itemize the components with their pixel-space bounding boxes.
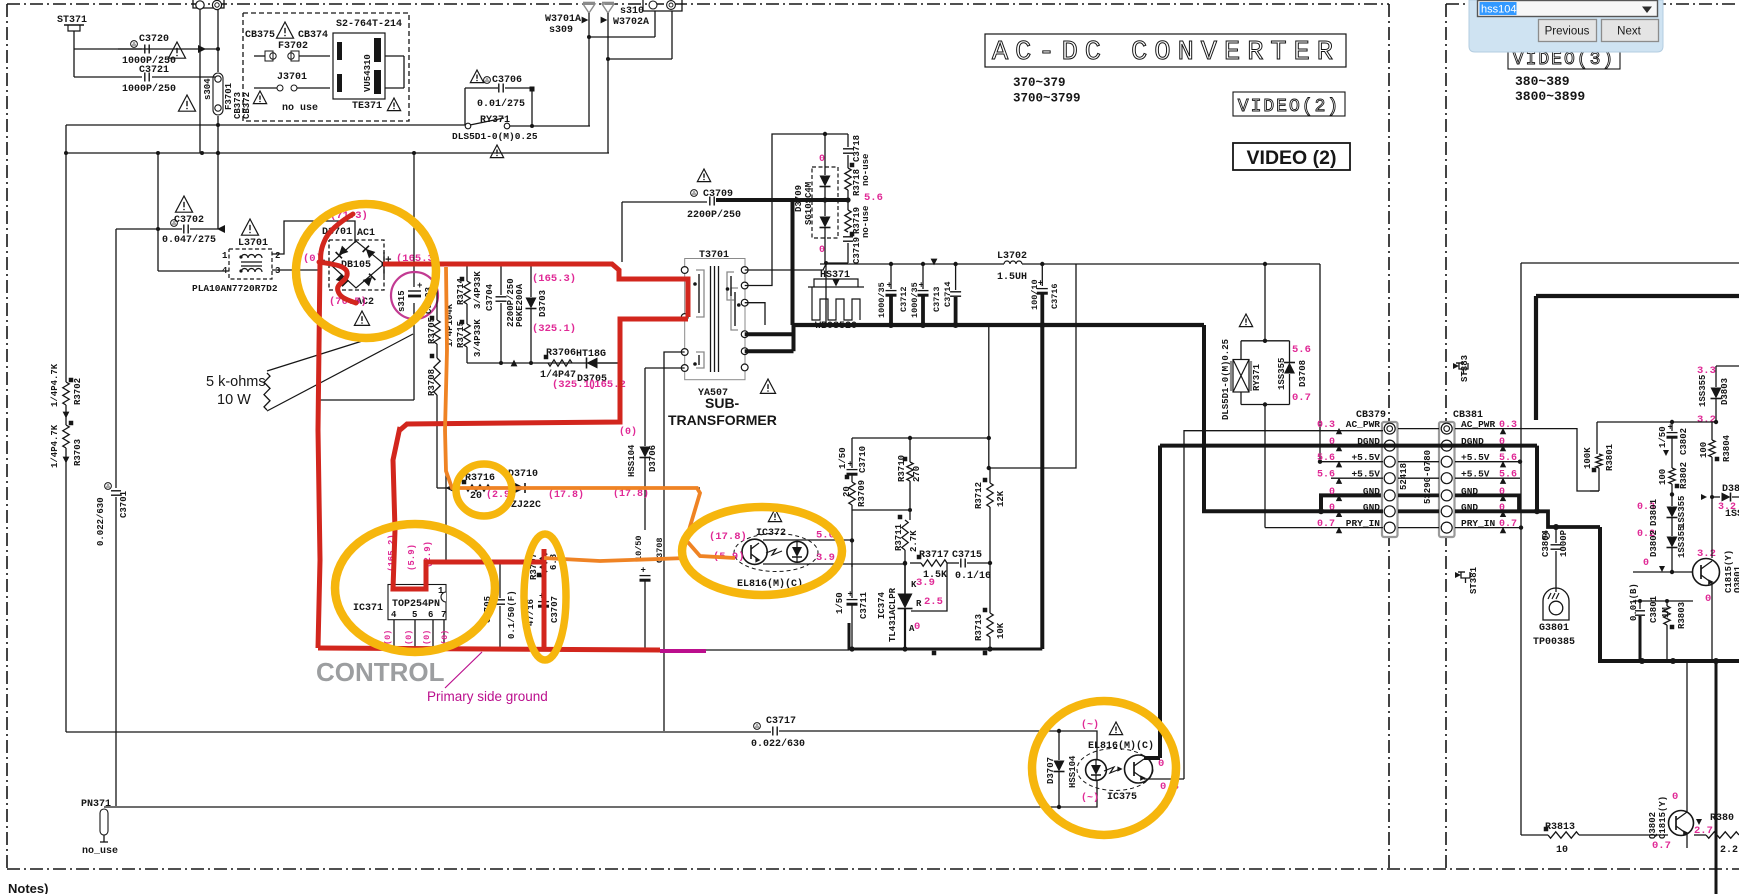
label primary side ground (427, 689, 548, 704)
svg-text:5 k-ohms: 5 k-ohms (206, 374, 266, 390)
labels CB379 rows (1317, 419, 1380, 533)
svg-text:C3720: C3720 (139, 34, 169, 45)
wire rail 5V (745, 259, 1076, 270)
svg-text:GND: GND (1363, 486, 1380, 497)
svg-text:0: 0 (1672, 791, 1678, 803)
svg-text:0.01/275: 0.01/275 (477, 98, 525, 110)
voltage (5.9) ic372 (713, 551, 745, 563)
wire s310 to W3702A (606, 11, 672, 61)
wire live rail y153 (64, 59, 609, 155)
svg-text:0: 0 (819, 154, 825, 165)
svg-text:2.7K: 2.7K (909, 530, 919, 552)
capacitor C3703 s315 (391, 272, 438, 319)
capacitor C3702 (158, 153, 225, 271)
svg-text:TRANSFORMER: TRANSFORMER (668, 412, 777, 428)
bridge rectifier D3701 DB105 (318, 227, 392, 325)
resistor R3702 (50, 125, 83, 407)
wire ic375 collector thick (1144, 756, 1160, 760)
resistor R3707 (529, 552, 559, 580)
svg-text:D3803: D3803 (1720, 378, 1730, 405)
red trace source left (318, 262, 320, 648)
svg-text:0.1/16: 0.1/16 (955, 570, 991, 582)
resistor R3805 (1694, 813, 1739, 856)
svg-text:1000/35: 1000/35 (877, 282, 887, 318)
svg-text:2200P/250: 2200P/250 (687, 209, 741, 221)
svg-text:(165.3): (165.3) (532, 273, 576, 285)
wire thick secondary2 (745, 324, 794, 352)
resistor R3717 (910, 550, 949, 581)
svg-text:R3712: R3712 (974, 482, 984, 509)
svg-text:3.2: 3.2 (1697, 548, 1716, 560)
svg-text:TL431ACLPR: TL431ACLPR (888, 587, 898, 642)
voltage (2.9) r3716 (486, 489, 516, 501)
svg-text:(0): (0) (619, 426, 637, 438)
diode module D3709 SG10SC4M (794, 134, 838, 263)
svg-text:1/4P4.7K: 1/4P4.7K (50, 363, 60, 407)
label CONTROL (316, 657, 445, 687)
voltage 0 tl431 (914, 621, 920, 633)
wire s310 to W3701A (587, 11, 655, 39)
svg-text:D3801: D3801 (1649, 498, 1659, 526)
svg-text:C3801: C3801 (1649, 595, 1659, 623)
svg-text:(17.8): (17.8) (548, 489, 584, 501)
svg-text:0.3: 0.3 (1317, 420, 1335, 431)
svg-text:20: 20 (470, 491, 482, 502)
wire ic375 emitter (1144, 430, 1184, 779)
wire lower rail A (66, 729, 1061, 733)
svg-text:10K: 10K (996, 622, 1006, 639)
svg-text:1SS355: 1SS355 (1677, 526, 1687, 558)
highlight bridge (296, 204, 436, 338)
wire q3801 base (1633, 571, 1693, 573)
svg-text:52418: 52418 (1399, 463, 1409, 490)
capacitor C3716 (1030, 264, 1060, 325)
voltage (~) bot (1081, 792, 1099, 804)
resistor R3713 (974, 563, 1006, 649)
svg-text:100: 100 (1658, 469, 1668, 485)
svg-text:0: 0 (1643, 558, 1649, 569)
svg-text:R3802: R3802 (1679, 462, 1689, 489)
voltage (165.2) d3705 (588, 379, 626, 391)
wire thick snubber top (716, 197, 851, 202)
svg-text:CB375: CB375 (245, 30, 275, 41)
svg-text:AC1: AC1 (357, 228, 375, 239)
capacitor C3711 (835, 564, 869, 649)
wire secondary riser (745, 132, 848, 286)
svg-text:0.7: 0.7 (1317, 519, 1335, 530)
label SUB-TRANSFORMER (668, 395, 777, 428)
svg-text:Next: Next (1617, 26, 1641, 38)
svg-text:W3701A: W3701A (545, 14, 581, 25)
capacitor C3701 (96, 229, 129, 806)
svg-text:2: 2 (275, 251, 280, 261)
svg-text:R3813: R3813 (1545, 822, 1575, 833)
svg-text:D3802: D3802 (1649, 530, 1659, 557)
capacitor C3708 (634, 535, 665, 649)
wire PRY_IN row (1265, 527, 1521, 529)
svg-text:+: + (919, 281, 924, 291)
svg-text:+: + (887, 281, 892, 291)
heatsink HS371 (808, 270, 864, 332)
svg-text:3.9: 3.9 (816, 552, 835, 564)
svg-text:TOP254PN: TOP254PN (392, 599, 440, 610)
svg-text:(0): (0) (404, 630, 414, 645)
svg-text:5.6: 5.6 (1292, 344, 1311, 356)
capacitor C3713 (910, 264, 942, 325)
svg-text:G3801: G3801 (1539, 623, 1569, 634)
voltage (~) top (1081, 719, 1099, 731)
resistor R3801 (1583, 443, 1615, 491)
RC snubber R3718 C3718 (843, 134, 871, 200)
svg-text:0: 0 (1705, 593, 1711, 605)
voltage (0) pins (383, 630, 450, 645)
diode D3703 (526, 264, 549, 363)
red trace drain drop (393, 427, 544, 589)
diode D3802 (1637, 526, 1687, 575)
svg-text:W3702A: W3702A (613, 17, 649, 28)
RC snubber R3719 C3719 (824, 200, 871, 325)
svg-text:R3713: R3713 (974, 614, 984, 641)
voltage 5.6 secondary (864, 192, 883, 204)
svg-text:7: 7 (441, 610, 446, 620)
capacitor C3801 (1629, 583, 1659, 661)
voltage (70.5) (329, 296, 367, 308)
wire bulk rail y153-down (318, 153, 414, 400)
optocoupler IC375 (1047, 722, 1154, 807)
svg-text:100K: 100K (1583, 447, 1593, 469)
capacitor C3710 (838, 438, 868, 482)
voltage 2.5 tl431 (924, 596, 943, 608)
svg-text:(325.1): (325.1) (532, 323, 576, 335)
wire AC_PWR row (1184, 429, 1599, 491)
svg-text:Notes): Notes) (8, 881, 48, 894)
relay contact RY371 (452, 115, 538, 158)
svg-text:R3804: R3804 (1722, 434, 1732, 462)
wire contact rail y125 (66, 37, 590, 126)
svg-text:3700~3799: 3700~3799 (1013, 92, 1081, 106)
magenta callout (445, 652, 482, 688)
resistor R3708 (427, 344, 440, 488)
dashed box no-use module (243, 13, 409, 121)
voltage 3.3 right (1697, 365, 1716, 377)
wire GND rows thick (1318, 495, 1600, 529)
wire right page box (1521, 263, 1739, 835)
capacitor C3706 (465, 70, 535, 128)
resistor R3706 (540, 348, 576, 381)
wire snubber mid rail (437, 360, 620, 488)
search input box (1478, 1, 1658, 17)
svg-text:+: + (1668, 423, 1673, 433)
voltage (17.8) ic372 (709, 531, 747, 543)
svg-text:1SS355: 1SS355 (1677, 496, 1687, 528)
svg-text:s315: s315 (397, 290, 407, 312)
capacitor C3721 (74, 49, 218, 95)
resistor R3802 (1658, 462, 1689, 506)
resistor R3712 (974, 264, 1076, 563)
wire rail to AC_PWR (1318, 264, 1322, 464)
svg-text:6: 6 (428, 610, 433, 620)
svg-text:5.6: 5.6 (1317, 470, 1335, 481)
svg-text:D3706: D3706 (648, 445, 658, 472)
svg-text:PLA10AN7720R7D2: PLA10AN7720R7D2 (192, 283, 278, 294)
svg-text:PN371: PN371 (81, 799, 111, 810)
ground rail primary (318, 646, 446, 648)
wire transformer pin3 left (664, 352, 685, 731)
terminal ST381 (1455, 566, 1479, 594)
svg-text:3/4P33K: 3/4P33K (473, 271, 483, 309)
wire L3701 pin2 to AC1 (272, 221, 355, 254)
svg-text:no_use: no_use (82, 846, 118, 857)
diode D3803 (1698, 366, 1739, 422)
svg-text:AC-DC CONVERTER: AC-DC CONVERTER (992, 38, 1340, 68)
voltage (325.1) c3704 (532, 323, 576, 335)
plug PN371 (81, 799, 118, 857)
search overlay panel (1469, 0, 1663, 52)
svg-text:3800~3899: 3800~3899 (1515, 89, 1585, 104)
connector s310 (620, 0, 682, 17)
svg-text:C3704: C3704 (485, 283, 495, 311)
wire fb top rail (852, 325, 991, 470)
wire c3801 top (1633, 599, 1693, 603)
svg-text:CB374: CB374 (298, 30, 328, 41)
svg-text:1SS355: 1SS355 (1698, 375, 1708, 407)
wire relay riser (1076, 262, 1320, 343)
svg-text:hss104: hss104 (1481, 4, 1516, 16)
resistor R3714 (456, 264, 483, 309)
diode D3705 (576, 349, 620, 385)
svg-text:R3702: R3702 (73, 378, 83, 405)
svg-text:1/50: 1/50 (835, 592, 845, 614)
svg-text:3: 3 (275, 266, 280, 276)
warning triangles top-left (168, 42, 258, 235)
svg-text:3.2: 3.2 (1697, 414, 1716, 426)
highlight c3707 (524, 534, 566, 660)
svg-text:s304: s304 (203, 78, 213, 100)
svg-text:C3706: C3706 (492, 75, 522, 86)
wire AC line top (74, 45, 220, 53)
capacitor C3707 (526, 592, 560, 627)
svg-text:0.3: 0.3 (1499, 420, 1517, 431)
svg-text:1000P: 1000P (1559, 529, 1569, 557)
capacitor C3709 (622, 169, 741, 262)
wire right node 421 (1597, 420, 1718, 454)
svg-text:TP00385: TP00385 (1533, 637, 1575, 648)
svg-text:1000P/250: 1000P/250 (122, 83, 176, 95)
svg-text:DLS5D1-0(M)0.25: DLS5D1-0(M)0.25 (1221, 339, 1231, 420)
svg-text:C3721: C3721 (139, 65, 169, 76)
voltage (165.3) bridge (396, 253, 440, 265)
svg-text:L3702: L3702 (997, 251, 1027, 262)
diode W3701A (545, 3, 595, 38)
wire thick transformer drop (791, 200, 795, 325)
svg-text:VIDEO(3): VIDEO(3) (1513, 50, 1615, 70)
resistor R3804 (1699, 422, 1732, 558)
voltage (71.3) (330, 210, 368, 222)
svg-text:P6KE200A: P6KE200A (515, 283, 525, 327)
transformer TE371 (333, 33, 404, 112)
svg-text:5.6: 5.6 (1499, 453, 1517, 464)
capacitor C3704 (485, 264, 525, 363)
svg-text:C3713: C3713 (932, 286, 942, 312)
svg-text:0.022/630: 0.022/630 (96, 497, 106, 546)
svg-text:R3708: R3708 (427, 369, 437, 396)
transistor Q3801 (1693, 548, 1739, 661)
orange trace bias (544, 558, 687, 561)
svg-text:IC375: IC375 (1107, 792, 1137, 803)
wire drain riser (445, 278, 447, 562)
svg-text:10: 10 (1556, 845, 1568, 856)
svg-text:Q3801: Q3801 (1733, 565, 1739, 593)
wire R3703 down (63, 448, 70, 732)
svg-text:10 W: 10 W (217, 392, 251, 408)
svg-text:C3712: C3712 (899, 286, 909, 312)
svg-text:R3703: R3703 (73, 439, 83, 466)
svg-text:SG10SC4M: SG10SC4M (804, 182, 814, 225)
svg-text:0: 0 (914, 621, 920, 633)
svg-text:VU54310: VU54310 (363, 54, 373, 92)
svg-text:SUB-: SUB- (705, 395, 740, 411)
resistor R3703 (50, 405, 83, 468)
voltage 0 ic375 (1158, 758, 1164, 770)
choke L3701 (192, 238, 280, 294)
svg-text:3.9: 3.9 (916, 577, 935, 589)
capacitor C3720 (74, 34, 176, 77)
svg-text:R380: R380 (1710, 813, 1734, 824)
label 52418 (1399, 463, 1409, 490)
wire r3813 row (1521, 834, 1668, 836)
voltage (17.8) d3710b (613, 488, 649, 500)
svg-text:+: + (848, 460, 853, 470)
svg-text:TE371: TE371 (352, 101, 382, 112)
wire right page thick top (1536, 296, 1739, 420)
wire pry thick drop (1600, 527, 1739, 664)
capacitor C3717 (751, 716, 805, 750)
label 53290-0780 (1423, 450, 1433, 504)
svg-text:D3708: D3708 (1298, 360, 1308, 387)
voltage (5.9) top254 (407, 544, 417, 571)
resistor R3813 (1544, 822, 1579, 856)
capacitor C3712 (877, 264, 909, 325)
capacitor C3802 (1658, 422, 1689, 468)
svg-text:S2-764T-214: S2-764T-214 (336, 19, 402, 30)
highlight r3716 (456, 464, 512, 516)
svg-text:C3710: C3710 (858, 446, 868, 473)
svg-text:(17.8): (17.8) (709, 531, 747, 543)
svg-text:12K: 12K (996, 490, 1006, 507)
relay coil RY371 (1221, 339, 1290, 528)
svg-text:Primary side ground: Primary side ground (427, 689, 548, 704)
wire neutral y229 (116, 227, 160, 231)
svg-text:s310: s310 (620, 6, 644, 17)
svg-text:C3716: C3716 (1050, 283, 1060, 309)
svg-text:T3701: T3701 (699, 250, 729, 261)
wire fb ground rail (703, 623, 993, 655)
svg-text:DLS5D1-0(M)0.25: DLS5D1-0(M)0.25 (452, 131, 538, 142)
wire phase vertical (200, 9, 202, 153)
svg-text:F3702: F3702 (278, 41, 308, 52)
resistor R3710 (852, 438, 922, 520)
svg-text:R3706: R3706 (546, 348, 576, 359)
svg-text:0.022/630: 0.022/630 (751, 738, 805, 750)
label VIDEO (2) bold (1233, 143, 1350, 170)
svg-text:C3714: C3714 (943, 281, 953, 307)
svg-text:C3715: C3715 (952, 550, 982, 561)
voltage (165.2) top254 (387, 534, 397, 572)
connector CB381 (1439, 410, 1483, 537)
svg-text:no-use: no-use (861, 154, 871, 186)
svg-text:+: + (848, 590, 853, 600)
voltage 5.6 d3708 (1292, 344, 1311, 356)
magenta primary ground (660, 649, 706, 653)
svg-text:C3711: C3711 (859, 591, 869, 619)
svg-text:HSS104: HSS104 (627, 444, 637, 477)
svg-text:10/50: 10/50 (634, 535, 644, 561)
ic IC371 TOP254PN (353, 585, 446, 648)
page border right sheet (1446, 4, 1739, 869)
voltage (325.1) d3705 (552, 379, 596, 391)
voltage 0.7 d3708 (1292, 392, 1311, 404)
svg-text:2.5: 2.5 (924, 596, 943, 608)
svg-text:1/4P4.7K: 1/4P4.7K (50, 424, 60, 468)
diode D3804 (1701, 484, 1739, 520)
capacitor C3714 (943, 264, 961, 325)
svg-text:1/50: 1/50 (838, 447, 848, 469)
diode D3710 (490, 469, 700, 511)
labels CB381 rows (1461, 419, 1517, 533)
svg-text:R3716: R3716 (465, 473, 495, 484)
svg-text:0.7: 0.7 (1652, 840, 1671, 852)
svg-text:5.6: 5.6 (864, 192, 883, 204)
terminal ST371 (57, 15, 87, 49)
capacitor C3715 (947, 550, 992, 582)
diode D3707 (1046, 731, 1078, 807)
wire gnd bus (745, 303, 1204, 328)
svg-text:5: 5 (412, 610, 417, 620)
resistor R3709 (842, 480, 867, 567)
shunt IC374 TL431 (877, 563, 947, 649)
svg-text:R3709: R3709 (857, 480, 867, 507)
capacitor C3705 (483, 562, 517, 647)
svg-text:VIDEO (2): VIDEO (2) (1247, 147, 1337, 169)
svg-text:4: 4 (391, 610, 397, 620)
wire L3701 pin4 (158, 270, 229, 272)
svg-text:J3701: J3701 (277, 72, 307, 83)
svg-text:IC374: IC374 (877, 591, 887, 619)
svg-text:370~379: 370~379 (1013, 76, 1066, 90)
svg-text:(~): (~) (1081, 719, 1099, 731)
voltage 3.2 right (1697, 414, 1716, 426)
svg-text:(0): (0) (383, 630, 393, 645)
svg-text:0.047/275: 0.047/275 (162, 234, 216, 246)
svg-text:1: 1 (222, 251, 228, 261)
svg-text:(~): (~) (1081, 792, 1099, 804)
svg-text:ST381: ST381 (1469, 566, 1479, 594)
voltage 5.0 ic372 (816, 530, 835, 542)
wire ic372 emitter (763, 561, 907, 565)
svg-text:EL816(M)(C): EL816(M)(C) (1088, 740, 1154, 752)
connector CB379 (1356, 410, 1398, 537)
svg-text:(0): (0) (422, 630, 432, 645)
svg-text:+: + (641, 566, 646, 576)
svg-text:no use: no use (282, 103, 318, 114)
svg-text:AC_PWR: AC_PWR (1346, 419, 1381, 430)
svg-text:C3804: C3804 (1541, 529, 1551, 557)
label VIDEO(3) outline (1508, 44, 1620, 70)
svg-text:IC371: IC371 (353, 603, 383, 614)
voltage 0.3 ic375 (1160, 781, 1179, 793)
svg-text:1.5UH: 1.5UH (997, 272, 1027, 283)
wire lower rail B (104, 805, 1061, 809)
